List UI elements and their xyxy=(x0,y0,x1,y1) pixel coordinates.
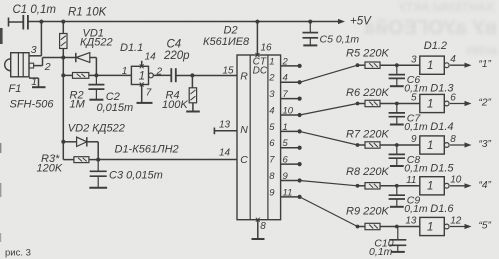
svg-text:+5V: +5V xyxy=(350,16,372,28)
pin number 13 xyxy=(219,120,231,131)
svg-text:15: 15 xyxy=(223,66,235,77)
resistor R7 xyxy=(358,142,420,148)
label D1.1 xyxy=(120,42,143,54)
svg-text:2: 2 xyxy=(282,56,289,67)
pin 7 wire D1.1 xyxy=(140,83,144,103)
pin 16 wire xyxy=(255,22,259,57)
pin number 7 (D1.1) xyxy=(146,88,152,99)
svg-text:C1 0,1m: C1 0,1m xyxy=(13,4,57,16)
svg-text:220p: 220p xyxy=(163,50,190,62)
label D2 xyxy=(224,25,238,37)
pin number 9 (D1.4 in) xyxy=(411,134,417,145)
svg-text:7: 7 xyxy=(269,155,275,166)
ground R4 xyxy=(186,111,200,113)
svg-text:6: 6 xyxy=(283,155,289,166)
output number 3 (inside) xyxy=(269,89,275,100)
svg-text:4: 4 xyxy=(269,105,274,116)
svg-text:D1.1: D1.1 xyxy=(120,42,143,54)
svg-text:C5 0,1m: C5 0,1m xyxy=(320,34,360,46)
svg-text:1M: 1M xyxy=(70,99,86,111)
svg-text:0,015m: 0,015m xyxy=(97,102,134,114)
svg-text:0,1m: 0,1m xyxy=(404,121,428,133)
svg-text:“4”: “4” xyxy=(479,180,492,191)
capacitor C3 xyxy=(89,160,107,188)
wire VD2 cathode down xyxy=(97,142,99,160)
pin number 10 (D1.5 out) xyxy=(450,175,462,186)
svg-text:14: 14 xyxy=(219,148,231,159)
ghost bleed-through text top right xyxy=(364,0,498,57)
output number 2 (inside) xyxy=(268,73,275,84)
svg-text:5: 5 xyxy=(411,93,417,104)
node top rail / D2 pin16 xyxy=(255,20,259,24)
pin number 2 xyxy=(44,61,51,73)
node C9 junction xyxy=(395,184,399,188)
node R5 left xyxy=(356,63,360,67)
node R4 junction xyxy=(190,73,194,77)
svg-text:0,1m: 0,1m xyxy=(369,246,393,258)
label D1.4 xyxy=(430,121,453,133)
label C1 0,1m xyxy=(13,4,57,16)
label 0,1m (C6) xyxy=(404,83,428,95)
wire pin 1 to R7 xyxy=(300,131,358,145)
label C input xyxy=(240,154,248,166)
label output 3 xyxy=(479,139,492,150)
output number 7 (inside) xyxy=(269,155,275,166)
label N input xyxy=(240,124,248,136)
label DC xyxy=(253,66,268,77)
label R1 10K xyxy=(68,7,108,19)
IC D2 body xyxy=(237,55,281,220)
label D1.2 xyxy=(424,40,447,52)
output number 4 (inside) xyxy=(269,105,274,116)
label D1.3 xyxy=(430,83,454,95)
node R9 left xyxy=(356,225,360,229)
svg-text:7: 7 xyxy=(283,89,289,100)
pin 13 stub xyxy=(214,128,237,135)
pin number 11 (D2 output) xyxy=(283,187,293,198)
pin number 3 (D1.2 in) xyxy=(411,54,417,65)
label F1 xyxy=(9,83,22,95)
pin 8 wire xyxy=(256,218,260,239)
label 0,1m (C9) xyxy=(404,203,428,215)
svg-text:1: 1 xyxy=(122,66,128,77)
pin number 5 (D1.3 in) xyxy=(411,93,417,104)
D2 output 3 stub (pin 7) xyxy=(281,97,302,101)
diode VD1 xyxy=(63,53,96,63)
output arrow “4” xyxy=(450,183,472,188)
D2 output 2 stub (pin 4) xyxy=(281,80,302,84)
svg-text:C: C xyxy=(240,154,248,166)
wire top rail xyxy=(28,21,341,23)
label 0,1m (C10) xyxy=(369,246,393,258)
wire D1.1 out to C4 xyxy=(153,74,171,76)
svg-text:К561ИЕ8: К561ИЕ8 xyxy=(203,36,250,48)
D2 output 9 stub (pin 11) xyxy=(281,195,302,199)
svg-text:1: 1 xyxy=(427,60,433,72)
svg-text:4: 4 xyxy=(283,73,288,84)
resistor R8 xyxy=(358,183,420,189)
node C2 junction xyxy=(94,73,98,77)
+5V supply arrow xyxy=(338,16,372,28)
svg-text:11: 11 xyxy=(283,187,293,198)
F1 pin 3 wire xyxy=(29,22,41,56)
op-amp inverter D1.3 xyxy=(420,94,449,112)
wire pin 11 to R9 xyxy=(300,197,358,227)
pin number 6 (D1.3 out) xyxy=(450,92,456,103)
F1 pin 2 tab and wire xyxy=(29,58,63,69)
svg-text:13: 13 xyxy=(405,216,417,227)
svg-text:2: 2 xyxy=(268,73,275,84)
F1 pin 1 wire xyxy=(29,78,39,87)
node C7 junction xyxy=(395,102,399,106)
label C6 xyxy=(407,74,421,86)
resistor R5 xyxy=(358,62,420,68)
label CT xyxy=(253,57,267,68)
node C3 junction xyxy=(96,158,100,162)
label 1M xyxy=(70,99,86,111)
svg-text:D1.6: D1.6 xyxy=(430,203,454,215)
svg-text:D1.4: D1.4 xyxy=(430,121,453,133)
label C8 xyxy=(407,154,421,166)
svg-text:SFH-506: SFH-506 xyxy=(10,99,55,111)
svg-text:8: 8 xyxy=(450,134,456,145)
svg-text:F1: F1 xyxy=(9,83,22,95)
node A junction xyxy=(61,56,65,60)
pin number 15 xyxy=(223,66,235,77)
label C2 xyxy=(106,91,120,103)
ground D1.1 pin7 xyxy=(137,102,153,104)
pin number 1 (D2 output) xyxy=(283,122,288,133)
pin number 11 (D1.5 in) xyxy=(406,175,416,186)
label C10 xyxy=(374,237,393,249)
svg-text:C3 0,015m: C3 0,015m xyxy=(109,170,163,182)
label R8 220K xyxy=(346,166,389,178)
node C10 junction xyxy=(395,225,399,229)
svg-text:1: 1 xyxy=(427,181,433,193)
svg-text:R7 220K: R7 220K xyxy=(346,129,389,141)
label R2 xyxy=(70,90,84,102)
output arrow “3” xyxy=(450,142,472,147)
wire node B to D1.1 input xyxy=(96,74,131,76)
svg-text:1: 1 xyxy=(269,56,274,67)
pin number 2 (D2 output) xyxy=(282,56,289,67)
label 0,1m (C8) xyxy=(404,162,428,174)
ground D2 pin8 xyxy=(252,238,265,240)
label output 5 xyxy=(479,221,492,232)
label C9 xyxy=(407,195,421,207)
svg-text:1: 1 xyxy=(283,122,288,133)
svg-text:“5”: “5” xyxy=(479,221,492,232)
label R5 220K xyxy=(346,48,389,60)
label 120K xyxy=(37,163,63,175)
svg-text:5: 5 xyxy=(283,138,289,149)
pin number 3 xyxy=(31,44,37,56)
diode VD2 xyxy=(63,137,98,146)
pin number 10 (D2 output) xyxy=(283,105,294,116)
wire C4 to D2 pin15 xyxy=(176,75,237,77)
op-amp inverter D1.4 xyxy=(420,136,449,154)
resistor R1 xyxy=(60,22,67,58)
svg-text:1: 1 xyxy=(427,98,433,110)
capacitor C10 xyxy=(389,227,406,252)
capacitor C9 xyxy=(389,186,405,207)
svg-text:D1-К561ЛН2: D1-К561ЛН2 xyxy=(115,144,179,156)
label R input xyxy=(240,71,248,83)
input terminal xyxy=(8,18,10,27)
output arrow “1” xyxy=(450,63,472,68)
pin number 14 (D1.1) xyxy=(145,52,157,63)
D2 output 1 stub (pin 2) xyxy=(281,64,302,68)
svg-text:D1.2: D1.2 xyxy=(424,40,447,52)
svg-text:R9 220K: R9 220K xyxy=(346,206,389,218)
output arrow “5” xyxy=(450,224,472,229)
pin number 5 (D2 output) xyxy=(283,138,289,149)
label 220p xyxy=(163,50,190,62)
capacitor C1 xyxy=(23,15,28,30)
svg-text:9: 9 xyxy=(269,187,275,198)
resistor R9 xyxy=(358,223,420,229)
label C3 0,015m xyxy=(109,170,163,182)
label R9 220K xyxy=(346,206,389,218)
svg-text:DC: DC xyxy=(253,66,268,77)
label 100K xyxy=(162,99,188,111)
svg-text:10: 10 xyxy=(450,175,462,186)
svg-text:9: 9 xyxy=(411,134,417,145)
pin number 2 (D1.1 out) xyxy=(156,67,163,78)
wire terminal to C1 xyxy=(9,21,24,23)
pin number 4 (D1.2 out) xyxy=(450,54,456,65)
svg-text:рис. 3: рис. 3 xyxy=(5,248,31,259)
label SFH-506 xyxy=(10,99,55,111)
label 0,1m (C7) xyxy=(404,121,428,133)
label VD2 KD522 xyxy=(68,123,125,135)
svg-text:R6 220K: R6 220K xyxy=(346,87,389,99)
svg-text:“3”: “3” xyxy=(479,139,492,150)
svg-text:1: 1 xyxy=(139,70,145,82)
pin number 6 (D2 output) xyxy=(283,155,289,166)
svg-text:0,1m: 0,1m xyxy=(404,203,428,215)
op-amp U1 inverter D1.1 xyxy=(131,66,153,84)
svg-text:ао393: ао393 xyxy=(467,45,498,57)
svg-text:“1”: “1” xyxy=(479,59,492,70)
svg-text:C4: C4 xyxy=(167,39,182,51)
pin number 4 (D2 output) xyxy=(283,73,288,84)
label D1-K561LN2 xyxy=(115,144,179,156)
label R6 220K xyxy=(346,87,389,99)
wire node B down xyxy=(62,75,64,159)
D2 output 8 stub (pin 9) xyxy=(281,178,302,182)
D2 output 4 stub (pin 10) xyxy=(281,113,302,117)
capacitor C5 xyxy=(303,22,319,45)
capacitor C2 xyxy=(88,75,104,99)
output number 6 (inside) xyxy=(269,138,275,149)
svg-text:10: 10 xyxy=(283,105,294,116)
pin number 13 (D1.6 in) xyxy=(405,216,417,227)
svg-text:13: 13 xyxy=(219,120,231,131)
svg-text:4: 4 xyxy=(450,54,456,65)
label K561IE8 xyxy=(203,36,250,48)
pin number 7 (D2 output) xyxy=(283,89,289,100)
svg-text:3: 3 xyxy=(411,54,417,65)
svg-text:“2”: “2” xyxy=(479,98,492,109)
svg-text:КД522: КД522 xyxy=(80,37,113,49)
svg-text:2: 2 xyxy=(44,61,51,73)
pin number 14 (D2) xyxy=(219,148,231,159)
node R8 left xyxy=(356,184,360,188)
pin number 8 (D1.4 out) xyxy=(450,134,456,145)
caption ris. 3 xyxy=(5,248,31,259)
wire pin 4 to R5 xyxy=(300,65,358,82)
resistor R4 xyxy=(189,75,196,111)
op-amp inverter D1.6 xyxy=(420,217,449,235)
label KD522 (VD1) xyxy=(80,37,113,49)
wire node A down xyxy=(62,58,64,76)
page gutter mark left edge xyxy=(0,28,3,242)
label C7 xyxy=(407,112,422,124)
label D1.5 xyxy=(430,162,454,174)
node C6 junction xyxy=(395,63,399,67)
pin number 8 (D2) xyxy=(260,221,266,232)
svg-text:1: 1 xyxy=(427,221,433,233)
output number 9 (inside) xyxy=(269,187,275,198)
node B junction xyxy=(61,73,65,77)
output number 5 (inside) xyxy=(269,122,275,133)
svg-text:0,1m: 0,1m xyxy=(404,162,428,174)
resistor R3 xyxy=(63,157,98,163)
node top rail / C5 xyxy=(308,20,312,24)
pin 14 tick D1.1 xyxy=(140,61,144,69)
pin number 16 xyxy=(261,43,273,54)
node top rail / R1 xyxy=(61,20,65,24)
svg-text:7: 7 xyxy=(146,88,152,99)
wire VD1 anode down xyxy=(95,58,97,76)
output arrow “2” xyxy=(450,101,472,106)
node R7 left xyxy=(356,143,360,147)
label C4 xyxy=(167,39,182,51)
wire pin 10 to R6 xyxy=(300,104,358,116)
capacitor C8 xyxy=(389,145,405,166)
capacitor C7 xyxy=(389,104,405,125)
label R7 220K xyxy=(346,129,389,141)
pin number 12 (D1.6 out) xyxy=(450,215,462,226)
svg-text:D1.5: D1.5 xyxy=(430,162,454,174)
svg-text:ХАНТЕНЫ АКТУ: ХАНТЕНЫ АКТУ xyxy=(398,0,494,14)
pin number 1 (D1.1 in) xyxy=(122,66,128,77)
svg-text:3: 3 xyxy=(31,44,37,56)
node C8 junction xyxy=(395,143,399,147)
svg-text:N: N xyxy=(240,124,248,136)
svg-text:120K: 120K xyxy=(37,163,63,175)
svg-text:VD2 КД522: VD2 КД522 xyxy=(68,123,125,135)
op-amp inverter D1.5 xyxy=(420,177,449,195)
capacitor C6 xyxy=(389,65,405,86)
ground F1 pin1 xyxy=(32,86,46,88)
IR receiver F1 body xyxy=(5,53,29,77)
label D1.6 xyxy=(430,203,454,215)
label output 1 xyxy=(479,59,492,70)
svg-text:11: 11 xyxy=(406,175,416,186)
svg-text:6: 6 xyxy=(269,138,275,149)
label VD1 xyxy=(83,28,104,40)
svg-text:16: 16 xyxy=(261,43,273,54)
op-amp inverter D1.2 xyxy=(420,56,449,74)
pin number 9 (D2 output) xyxy=(283,171,289,182)
D2 output 5 stub (pin 1) xyxy=(281,129,302,133)
svg-text:14: 14 xyxy=(145,52,157,63)
svg-text:3: 3 xyxy=(269,89,275,100)
label output 2 xyxy=(479,98,492,109)
D2 output 6 stub (pin 5) xyxy=(281,146,302,150)
svg-text:5: 5 xyxy=(269,122,275,133)
label output 4 xyxy=(479,180,492,191)
svg-text:R5 220K: R5 220K xyxy=(346,48,389,60)
svg-text:D2: D2 xyxy=(224,25,238,37)
svg-text:вУ аУОГЕОйа: вУ аУОГЕОйа xyxy=(364,17,497,39)
svg-text:12: 12 xyxy=(450,215,462,226)
node VD2 junction xyxy=(61,140,65,144)
svg-text:R1 10K: R1 10K xyxy=(68,7,108,19)
svg-text:1: 1 xyxy=(427,140,433,152)
svg-text:R: R xyxy=(240,71,248,83)
node R6 left xyxy=(356,102,360,106)
svg-text:9: 9 xyxy=(283,171,289,182)
svg-text:R8 220K: R8 220K xyxy=(346,166,389,178)
svg-text:6: 6 xyxy=(450,92,456,103)
wire pin 9 to R8 xyxy=(300,181,358,186)
label 0,015m (C2) xyxy=(97,102,134,114)
output number 8 (inside) xyxy=(269,171,275,182)
svg-text:100K: 100K xyxy=(162,99,188,111)
node top rail / F1 pin3 xyxy=(39,20,43,24)
resistor R2 xyxy=(63,73,96,79)
svg-text:8: 8 xyxy=(260,221,266,232)
resistor R6 xyxy=(358,100,420,106)
capacitor C4 xyxy=(171,68,176,82)
pin number 1 xyxy=(31,76,37,88)
label R3* xyxy=(41,153,60,165)
svg-text:8: 8 xyxy=(269,171,275,182)
output number 1 (inside) xyxy=(269,56,274,67)
label R4 xyxy=(166,89,180,101)
D2 output 7 stub (pin 6) xyxy=(281,162,302,166)
wire to D2 pin14 xyxy=(98,159,237,161)
label C5 0,1m xyxy=(320,34,360,46)
